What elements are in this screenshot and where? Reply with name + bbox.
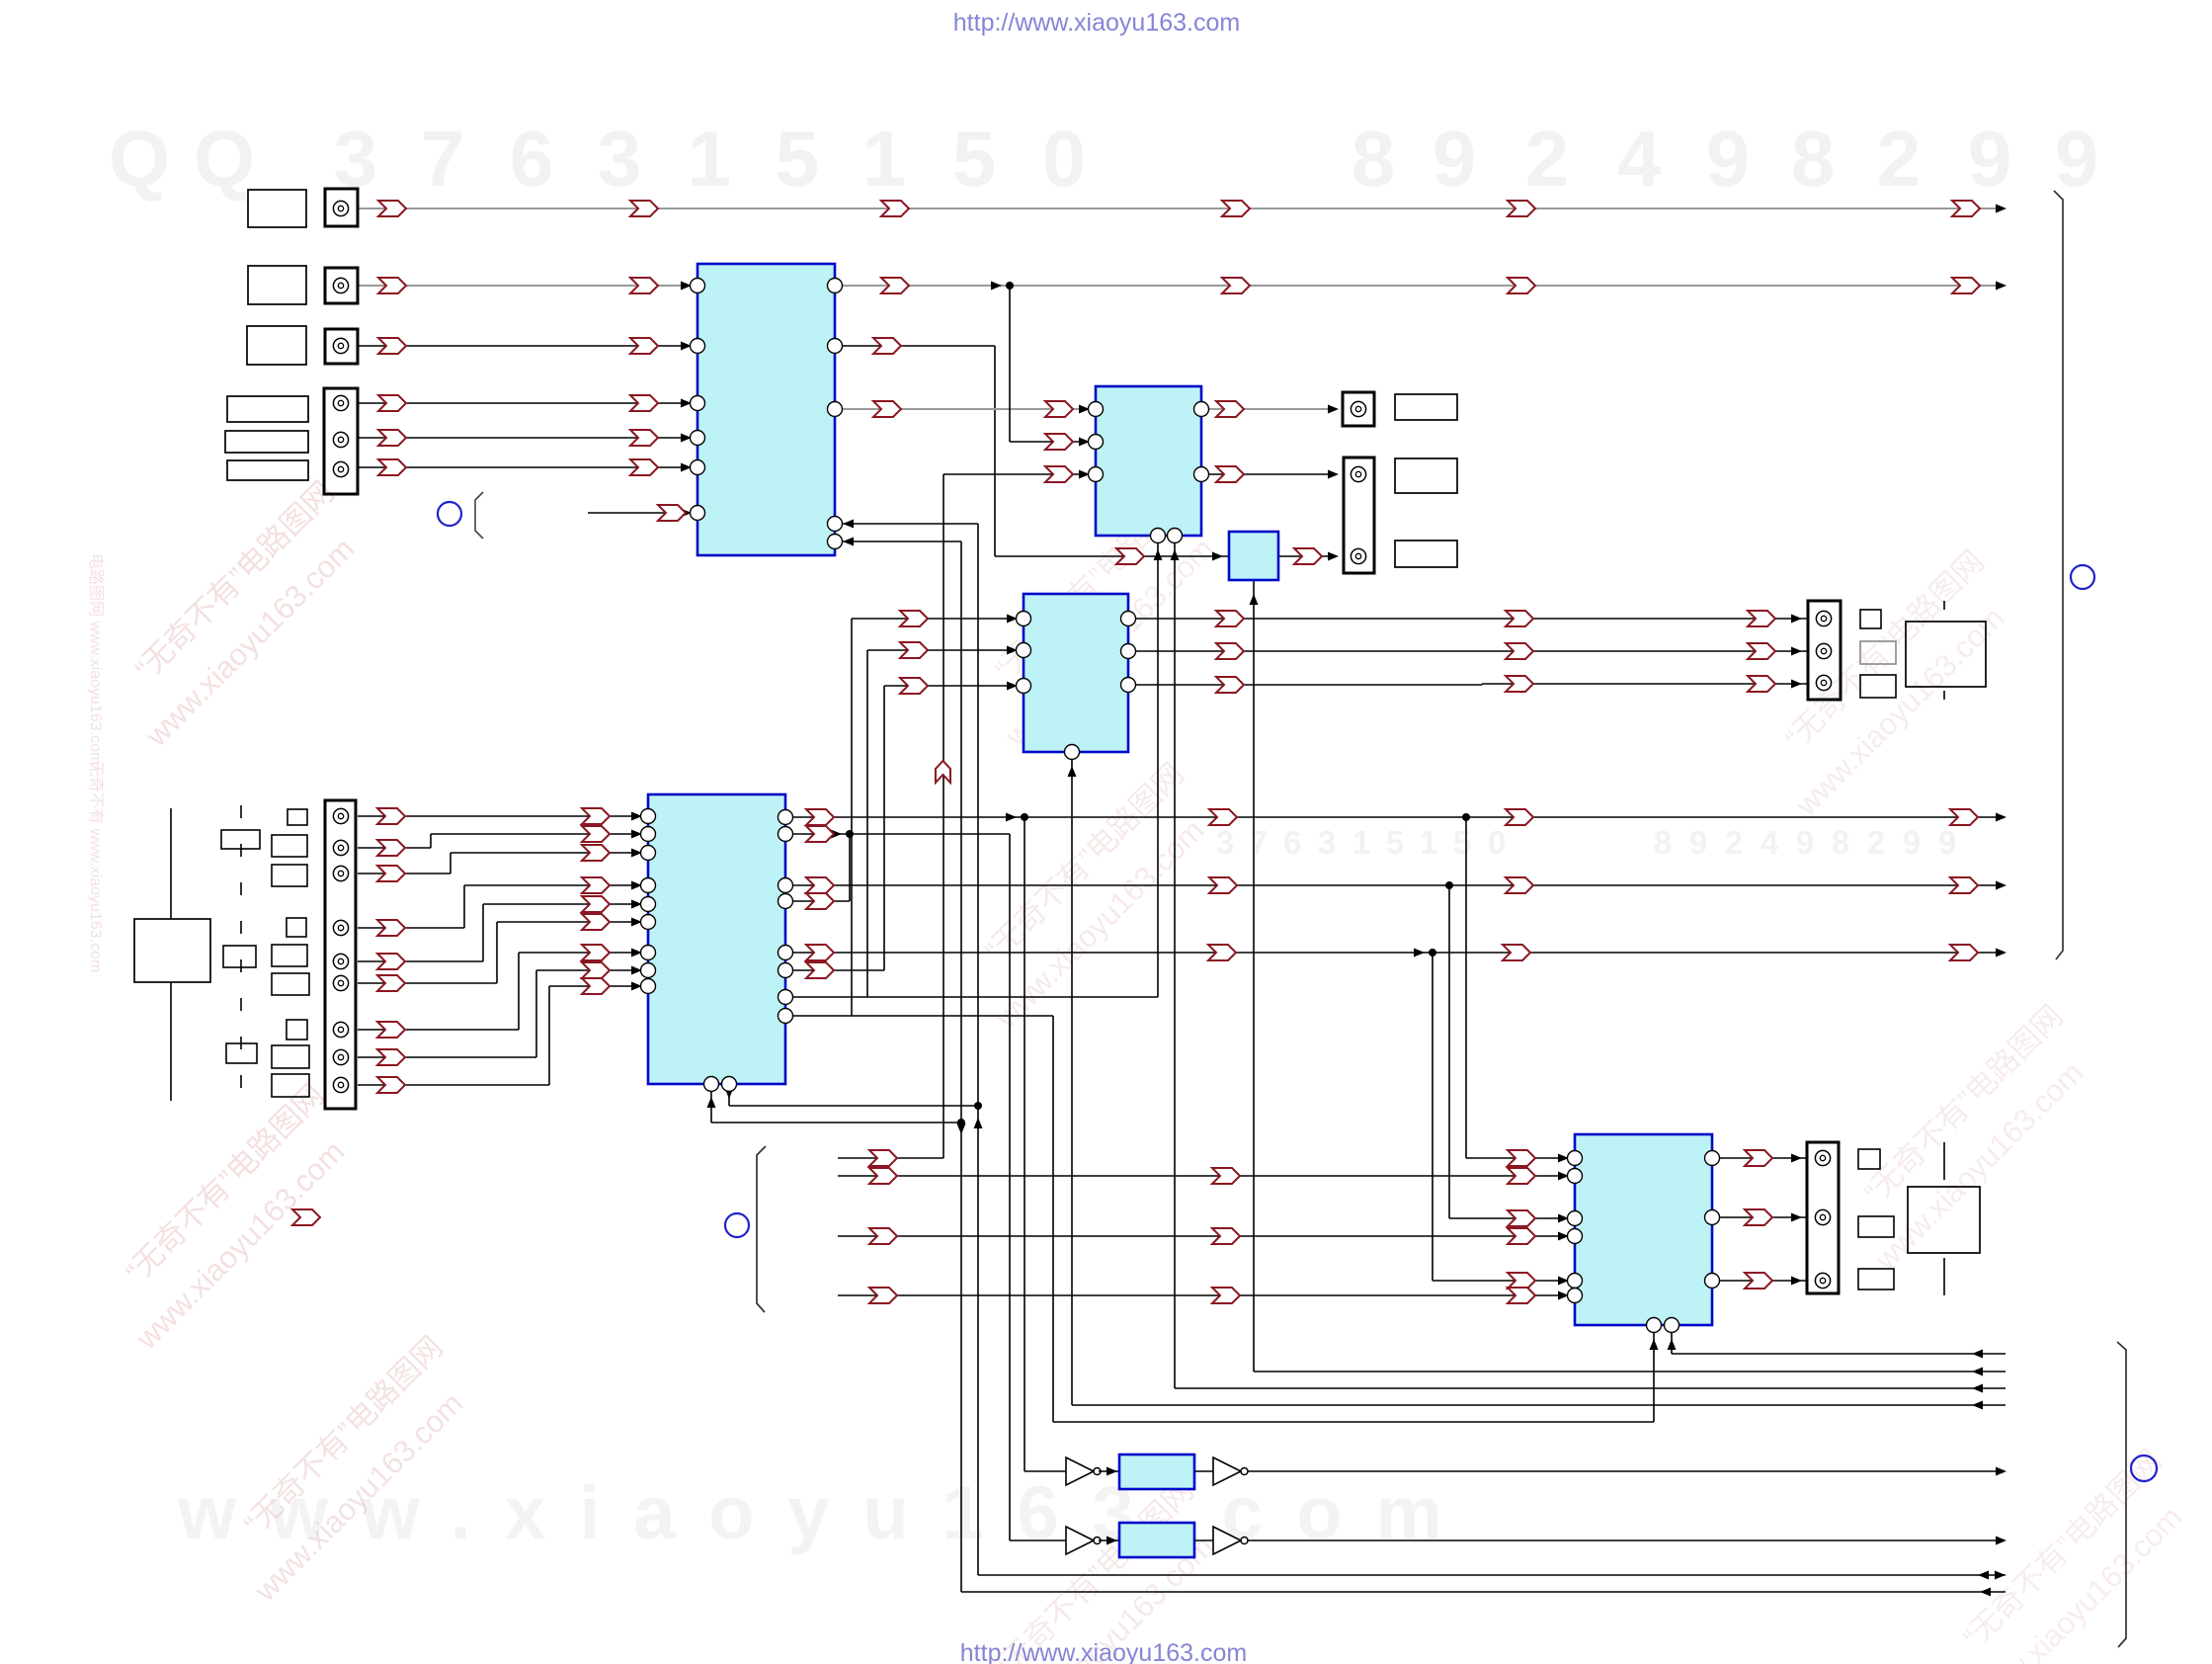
- U2 bottom pin1: [1151, 529, 1166, 543]
- node circle left bottom: [725, 1213, 749, 1237]
- junction row844/x860: [846, 830, 854, 838]
- arrowhead rail1405: [1972, 1384, 1983, 1393]
- net-arrow chevron (1538,692): [1506, 676, 1533, 692]
- wire row B y1190: [838, 1175, 1575, 1177]
- arrowhead before junction: [991, 282, 1002, 291]
- net-arrow chevron (1538,659): [1506, 643, 1533, 659]
- monitor box 2: [1908, 1187, 1980, 1253]
- arrowhead U5 pin y844: [631, 830, 642, 839]
- arrowhead into U3: [1212, 552, 1223, 561]
- arrowhead CN6 pin1: [1791, 1154, 1802, 1163]
- delay block D1: [1119, 1455, 1194, 1489]
- U4 right pin y659: [1121, 644, 1136, 659]
- wire row y982: [785, 969, 884, 971]
- key rect A2: [223, 946, 256, 967]
- CN2 jack y973: [333, 954, 348, 968]
- arrowhead U5 pin y826: [631, 812, 642, 821]
- wire into U1 pin5: [358, 466, 697, 468]
- wire rail y1370: [1672, 1353, 2006, 1355]
- load box CN4b2: [1395, 541, 1457, 567]
- plug rect CN5b: [1860, 641, 1896, 664]
- arrowhead CN5 pin2: [1791, 647, 1802, 656]
- arrowhead U6 pin6: [1558, 1291, 1569, 1300]
- svg-text:8: 8: [1654, 824, 1672, 861]
- net-arrow chevron (1780,1172): [1745, 1150, 1772, 1166]
- key rect B3: [272, 865, 307, 886]
- arrowhead down U5 bpin2: [725, 1088, 734, 1099]
- svg-text:3: 3: [598, 115, 642, 203]
- svg-text:Q: Q: [109, 115, 170, 203]
- arrowhead rail1611: [1980, 1588, 1991, 1597]
- net-flag vertical chevron on x955 wire: [936, 761, 950, 783]
- svg-text:9: 9: [1796, 824, 1814, 861]
- arrowhead U5 pin y998: [631, 982, 642, 991]
- junction row827/x1484: [1462, 813, 1470, 821]
- CN2 jack y858: [333, 840, 348, 855]
- arrowhead row289 end: [1996, 282, 2007, 291]
- wire U1 out y350: [835, 345, 995, 347]
- U2 left pin y414: [1089, 402, 1104, 417]
- wire to U5 pin y998: [549, 985, 648, 987]
- svg-text:1: 1: [862, 115, 907, 203]
- junction row964/x1450: [1429, 949, 1436, 957]
- source box row2: [248, 266, 306, 304]
- arrowhead U1 pin4: [681, 434, 692, 443]
- U6 right pin y1296: [1705, 1274, 1720, 1289]
- svg-text:4: 4: [1617, 115, 1662, 203]
- net-arrow chevron (1538,827): [1506, 809, 1533, 825]
- monitor2 bottom tick: [1943, 1258, 1945, 1295]
- plug rect CN6c: [1858, 1269, 1894, 1290]
- U5 left pin y915: [641, 897, 656, 912]
- U2 bottom pin2: [1168, 529, 1183, 543]
- svg-text:2: 2: [1725, 824, 1743, 861]
- wire to U5 pin y964: [519, 952, 648, 954]
- net-arrow chevron (603,896): [582, 877, 610, 893]
- key rect B6: [272, 973, 309, 995]
- wire row y912: [785, 900, 850, 902]
- svg-text:9: 9: [1903, 824, 1921, 861]
- U5 right pin y896: [778, 878, 793, 893]
- bus bracket left bottom: [757, 1146, 766, 1312]
- junction row289/x1022: [1006, 282, 1014, 290]
- arrowhead into CN4 pin3: [1328, 552, 1339, 561]
- wire D1 to inverter A2: [1194, 1470, 1213, 1472]
- arrowhead CN5 pin1: [1791, 615, 1802, 624]
- U5 left pin y933: [641, 915, 656, 930]
- arrowhead U5 pin y933: [631, 918, 642, 927]
- arrowhead pre-junction x1037: [1006, 813, 1017, 822]
- net-arrow chevron (603,964): [582, 945, 610, 960]
- svg-text:9: 9: [1433, 115, 1477, 203]
- wire U6 out3 to CN6: [1712, 1280, 1808, 1282]
- wire CN2 pin y995 seg1: [358, 982, 497, 984]
- CN1a jack: [333, 201, 348, 215]
- wire U6 bpin1 drop: [1653, 1325, 1655, 1422]
- wire CN2 pin y939 seg1: [358, 927, 464, 929]
- IC U4: [1024, 594, 1128, 752]
- arrowhead CN6 pin3: [1791, 1277, 1802, 1286]
- net-arrow chevron (603,844): [582, 826, 610, 842]
- U6 right pin y1172: [1705, 1151, 1720, 1166]
- net-arrow chevron (1324,563): [1294, 548, 1322, 564]
- wire from U1 out row y289: [835, 285, 1998, 287]
- U1 left pin y289: [691, 279, 705, 293]
- U5 left pin y896: [641, 878, 656, 893]
- arrowhead U5 pin y982: [631, 966, 642, 975]
- wire rail y1594: [978, 1574, 2006, 1576]
- wire vertical x973: [960, 541, 962, 1592]
- arrowhead U6 pin2: [1558, 1172, 1569, 1181]
- arrowhead down x973: [957, 1123, 966, 1134]
- U5 bottom pin2: [722, 1077, 737, 1092]
- arrowhead CN4 pin1: [1328, 405, 1339, 414]
- plug square CN5a: [1860, 610, 1881, 628]
- svg-text:9: 9: [2055, 115, 2099, 203]
- wire rail y1559: [1248, 1539, 1998, 1541]
- U5 right pin y912: [778, 894, 793, 909]
- U4 left pin y694: [1017, 679, 1031, 694]
- CN2 jack y1042: [333, 1022, 348, 1037]
- wire into inverter B1: [1010, 1539, 1066, 1541]
- net-arrow chevron (1783,659): [1748, 643, 1775, 659]
- wire vertical x878: [866, 650, 868, 997]
- wire vertical x1007: [994, 346, 996, 556]
- wire row y1009: [785, 996, 1158, 998]
- key rect A3: [226, 1043, 257, 1063]
- net-arrow chevron (1245,414): [1216, 401, 1244, 417]
- IC U5 key/servo block: [648, 794, 785, 1084]
- svg-text:http://www.xiaoyu163.com: http://www.xiaoyu163.com: [960, 1639, 1247, 1664]
- wire U4 out3 b: [1482, 683, 1808, 685]
- wire U4 out1 to CN5: [1128, 618, 1808, 620]
- net-arrow chevron (603,826): [582, 808, 610, 824]
- CN6 jack3: [1815, 1273, 1830, 1288]
- net-arrow chevron (830,982): [806, 962, 834, 978]
- wire row D y1311: [838, 1294, 1575, 1296]
- wire inv B1 to delay D2: [1099, 1539, 1119, 1541]
- arrowhead row896 end: [1996, 881, 2007, 890]
- connector CN1d 3pin: [324, 388, 358, 494]
- net-arrow chevron (1540,289): [1508, 278, 1535, 293]
- arrowhead up U5 bpin1: [707, 1097, 716, 1108]
- CN2 jack y826: [333, 808, 348, 823]
- svg-text:电路图网 www.xiaoyu163.com: 电路图网 www.xiaoyu163.com: [87, 553, 105, 765]
- wire rail y1422: [1072, 1404, 2006, 1406]
- wire into U2 pin3: [943, 473, 1096, 475]
- U5 left pin y863: [641, 846, 656, 861]
- svg-text:2: 2: [1525, 115, 1570, 203]
- net-arrow chevron (396,1042): [377, 1022, 405, 1038]
- arrowhead U5 pin y915: [631, 900, 642, 909]
- net-arrow chevron (1540,1251): [1508, 1228, 1535, 1244]
- svg-text:9: 9: [1968, 115, 2012, 203]
- wire to U5 pin y863: [451, 852, 648, 854]
- net-arrow chevron (1237,964): [1208, 945, 1236, 960]
- wire U6 out1 to CN6: [1712, 1157, 1808, 1159]
- U1 right pin y548: [828, 535, 843, 549]
- net-arrow chevron (1538,896): [1506, 877, 1533, 893]
- U1 right pin y350: [828, 339, 843, 354]
- net-arrow chevron (894,1311): [869, 1288, 897, 1303]
- net-arrow chevron (396,826): [377, 808, 405, 824]
- net-arrow chevron (1540,211): [1508, 201, 1535, 216]
- wire into U1 pin3: [358, 402, 697, 404]
- IC U6 driver: [1575, 1134, 1712, 1325]
- net-arrow chevron (898,350): [873, 338, 901, 354]
- U1 left pin y350: [691, 339, 705, 354]
- U5 right pin y1009: [778, 990, 793, 1005]
- net-arrow chevron (1245,480): [1216, 466, 1244, 482]
- junction row827/x1037: [1021, 813, 1028, 821]
- arrowhead U4 pin3: [1007, 682, 1018, 691]
- wire inv A1 to delay D1: [1099, 1470, 1119, 1472]
- CN2 jack y1098: [333, 1077, 348, 1092]
- net-arrow chevron (1783,626): [1748, 611, 1775, 626]
- CN5 jack1: [1816, 611, 1831, 625]
- U6 left pin y1233: [1568, 1211, 1583, 1226]
- U5 left pin y982: [641, 963, 656, 978]
- connector CN4b 2pin: [1344, 458, 1374, 573]
- svg-text:7: 7: [421, 115, 465, 203]
- CN4b jack2: [1351, 548, 1365, 563]
- arrowhead U6 pin3: [1558, 1214, 1569, 1223]
- arrowhead U5 pin y863: [631, 849, 642, 858]
- net-arrow chevron (396,995): [377, 975, 405, 991]
- net-arrow chevron (396,1098): [377, 1077, 405, 1093]
- bracket with circle near U1 pin6: [438, 502, 461, 526]
- wire to U5 pin y844: [431, 833, 648, 835]
- U4 left pin y658: [1017, 643, 1031, 658]
- net-arrow chevron (603,998): [582, 978, 610, 994]
- arrowhead up U6 bpin2: [1668, 1339, 1677, 1350]
- wire U6 bpin2 drop: [1671, 1325, 1673, 1354]
- net-arrow chevron (680,519): [658, 505, 686, 521]
- net-arrow chevron (925,626): [900, 611, 928, 626]
- wire U4 bottom vertical: [1071, 752, 1073, 1405]
- load box CN4b1: [1395, 458, 1457, 493]
- U1 left pin y519: [691, 506, 705, 521]
- arrowhead U2 pin2: [1079, 438, 1090, 447]
- wire rail y1489: [1248, 1470, 1998, 1472]
- net-arrow chevron (1245,693): [1216, 677, 1244, 693]
- net-arrow chevron (1988,964): [1950, 945, 1978, 960]
- arrowhead rail1388: [1972, 1368, 1983, 1376]
- U1 right pin y289: [828, 279, 843, 293]
- svg-text:4: 4: [1761, 824, 1779, 861]
- svg-text:Q: Q: [194, 115, 255, 203]
- wire U3 to CN4: [1278, 555, 1336, 557]
- U5 right pin y844: [778, 827, 793, 842]
- arrowhead U4 pin2: [1007, 646, 1018, 655]
- wire vertical x862: [851, 619, 853, 1016]
- U5 right pin y827: [778, 810, 793, 825]
- net-arrow chevron (1245,659): [1216, 643, 1244, 659]
- inverter A2: [1213, 1457, 1248, 1485]
- net-arrow chevron (1538,626): [1506, 611, 1533, 626]
- U5 right pin y982: [778, 963, 793, 978]
- bar box row5: [225, 431, 308, 453]
- arrowhead row827 end: [1996, 813, 2007, 822]
- monitor box 1: [1906, 622, 1986, 687]
- arrowhead U1 pin5: [681, 463, 692, 472]
- wire vertical x1467: [1448, 885, 1450, 1218]
- U4 left pin y626: [1017, 612, 1031, 626]
- net-arrow chevron (396,884): [377, 866, 405, 881]
- U1 left pin y443: [691, 431, 705, 446]
- wire U5 bpin2 drop: [728, 1084, 730, 1106]
- junction rail1119/x990: [974, 1102, 982, 1110]
- svg-text:8: 8: [1832, 824, 1849, 861]
- wire rail y1136: [711, 1122, 961, 1123]
- wire into U1 pin4: [358, 437, 697, 439]
- arrowhead U2 pin3: [1079, 470, 1090, 479]
- arrowhead U2 pin1: [1079, 405, 1090, 414]
- U6 bottom pin1: [1647, 1318, 1662, 1333]
- net-arrow chevron (397,443): [378, 430, 406, 446]
- U1 right pin y414: [828, 402, 843, 417]
- net-arrow chevron (1540,1233): [1508, 1210, 1535, 1226]
- CN1b jack: [333, 278, 348, 292]
- wire into U2 pin2: [1010, 441, 1096, 443]
- CN4b jack1: [1351, 466, 1365, 481]
- U1 right pin y530: [828, 517, 843, 532]
- key rect B8: [272, 1045, 309, 1068]
- net-arrow chevron (1540,1172): [1508, 1150, 1535, 1166]
- arrowhead rail1594 end: [1995, 1571, 2006, 1580]
- svg-text:5: 5: [1453, 824, 1471, 861]
- U1 left pin y473: [691, 460, 705, 475]
- source box row1: [248, 190, 306, 227]
- svg-text:2: 2: [1867, 824, 1885, 861]
- wire CN2 pin y884 seg1: [358, 873, 451, 874]
- U4 bottom pin: [1065, 745, 1080, 760]
- net-arrow chevron (894,1190): [869, 1168, 897, 1184]
- net-arrow chevron (1251,211): [1222, 201, 1250, 216]
- inverter A1: [1066, 1457, 1101, 1485]
- IC U1 tuner/IF block: [697, 264, 835, 555]
- plug rect CN6b: [1858, 1216, 1894, 1237]
- arrowhead CN4 pin2: [1328, 470, 1339, 479]
- net-arrow chevron (830,964): [806, 945, 834, 960]
- arrowhead row844: [831, 830, 842, 839]
- svg-text:1: 1: [1420, 824, 1437, 861]
- key square B1: [287, 809, 307, 825]
- net-arrow chevron (1241,1311): [1212, 1288, 1240, 1303]
- wire vertical x1022 to delay2: [1009, 834, 1011, 1540]
- svg-text:7: 7: [1250, 824, 1268, 861]
- svg-text:8: 8: [1352, 115, 1396, 203]
- U5 right pin y964: [778, 946, 793, 960]
- arrowhead U5 pin y964: [631, 949, 642, 957]
- CN2 jack y995: [333, 975, 348, 990]
- bar box row4: [227, 396, 308, 422]
- node circle right bottom: [2131, 1456, 2157, 1481]
- wire CN2 pin y1042 seg1: [358, 1029, 519, 1031]
- wire into U1 pin6: [588, 512, 697, 514]
- wire row y827: [785, 816, 1998, 818]
- wire vertical x990: [977, 524, 979, 1575]
- U5 left pin y964: [641, 946, 656, 960]
- U1 left pin y408: [691, 396, 705, 411]
- bar box row6: [227, 460, 308, 480]
- wire into U4 pin2: [867, 649, 1024, 651]
- net-arrow chevron (1780,1296): [1745, 1273, 1772, 1289]
- net-arrow chevron (603,863): [582, 845, 610, 861]
- arrowhead rail1370: [1972, 1350, 1983, 1359]
- U6 left pin y1172: [1568, 1151, 1583, 1166]
- net-arrow chevron (925,658): [900, 642, 928, 658]
- CN2 jack y884: [333, 866, 348, 880]
- net-arrow chevron (310,1232): [292, 1209, 320, 1225]
- arrowhead into U1 pin y530: [843, 520, 854, 529]
- U2 right pin y480: [1194, 467, 1209, 482]
- IC U2: [1096, 386, 1201, 536]
- wire row C y1251: [838, 1235, 1575, 1237]
- CN6 jack2: [1815, 1209, 1830, 1224]
- wire row y844: [785, 833, 1010, 835]
- net-arrow chevron (1990,289): [1952, 278, 1980, 293]
- arrowhead into U1 pin2: [681, 342, 692, 351]
- net-arrow chevron (396,1070): [377, 1049, 405, 1065]
- arrowhead up into U2 bpin1: [1154, 549, 1163, 560]
- wire U3 bottom vertical: [1253, 580, 1255, 1372]
- wire jog x436: [430, 834, 432, 848]
- net-arrow chevron (1988,896): [1950, 877, 1978, 893]
- wire U4 out2 to CN5: [1128, 650, 1808, 652]
- wire to U5 pin y896: [464, 884, 648, 886]
- net-arrow chevron (603,915): [582, 896, 610, 912]
- wire U1 to U2 pin1: [835, 408, 1096, 410]
- svg-text:5: 5: [776, 115, 820, 203]
- net-arrow chevron (652,443): [630, 430, 658, 446]
- net-arrow chevron (1990,211): [1952, 201, 1980, 216]
- wire vertical x1450: [1432, 953, 1434, 1281]
- svg-text:8: 8: [1791, 115, 1836, 203]
- wire vertical x1066: [1052, 1016, 1054, 1422]
- wire CN2 pin y826 to U5: [358, 815, 648, 817]
- svg-text:9: 9: [1689, 824, 1707, 861]
- wire antenna lead upper: [170, 808, 172, 919]
- wire vertical x1022 to U2 pin2: [1009, 286, 1011, 442]
- wire U4 out3 a: [1128, 684, 1482, 686]
- junction row896/x1467: [1445, 881, 1453, 889]
- key square B4: [287, 918, 306, 937]
- source box row3: [247, 326, 306, 365]
- arrowhead up into U3 bottom: [1250, 594, 1259, 605]
- wire rail y1388: [1254, 1371, 2006, 1373]
- wire CN2 pin y1098 seg1: [358, 1084, 549, 1086]
- wire to U5 pin y915: [483, 903, 648, 905]
- U6 left pin y1296: [1568, 1274, 1583, 1289]
- connector CN6 3pin: [1807, 1142, 1839, 1293]
- wire rail y1611: [961, 1591, 2006, 1593]
- net-arrow chevron (397,211): [378, 201, 406, 216]
- CN5 jack2: [1816, 643, 1831, 658]
- key square B7: [287, 1020, 307, 1040]
- arrowhead rail1559 end: [1996, 1537, 2007, 1545]
- monitor1 top tick: [1943, 601, 1945, 610]
- net-arrow chevron (397,408): [378, 395, 406, 411]
- wire U2 out to CN4 pin2: [1201, 473, 1336, 475]
- wire rail y1119: [729, 1105, 978, 1107]
- load box CN4a: [1395, 394, 1457, 420]
- net-arrow chevron (1540,1296): [1508, 1273, 1535, 1289]
- wire row y1028: [785, 1015, 1053, 1017]
- svg-text:5: 5: [1386, 824, 1404, 861]
- net-arrow chevron (1535,964): [1503, 945, 1530, 960]
- bus bracket right top: [2054, 191, 2063, 959]
